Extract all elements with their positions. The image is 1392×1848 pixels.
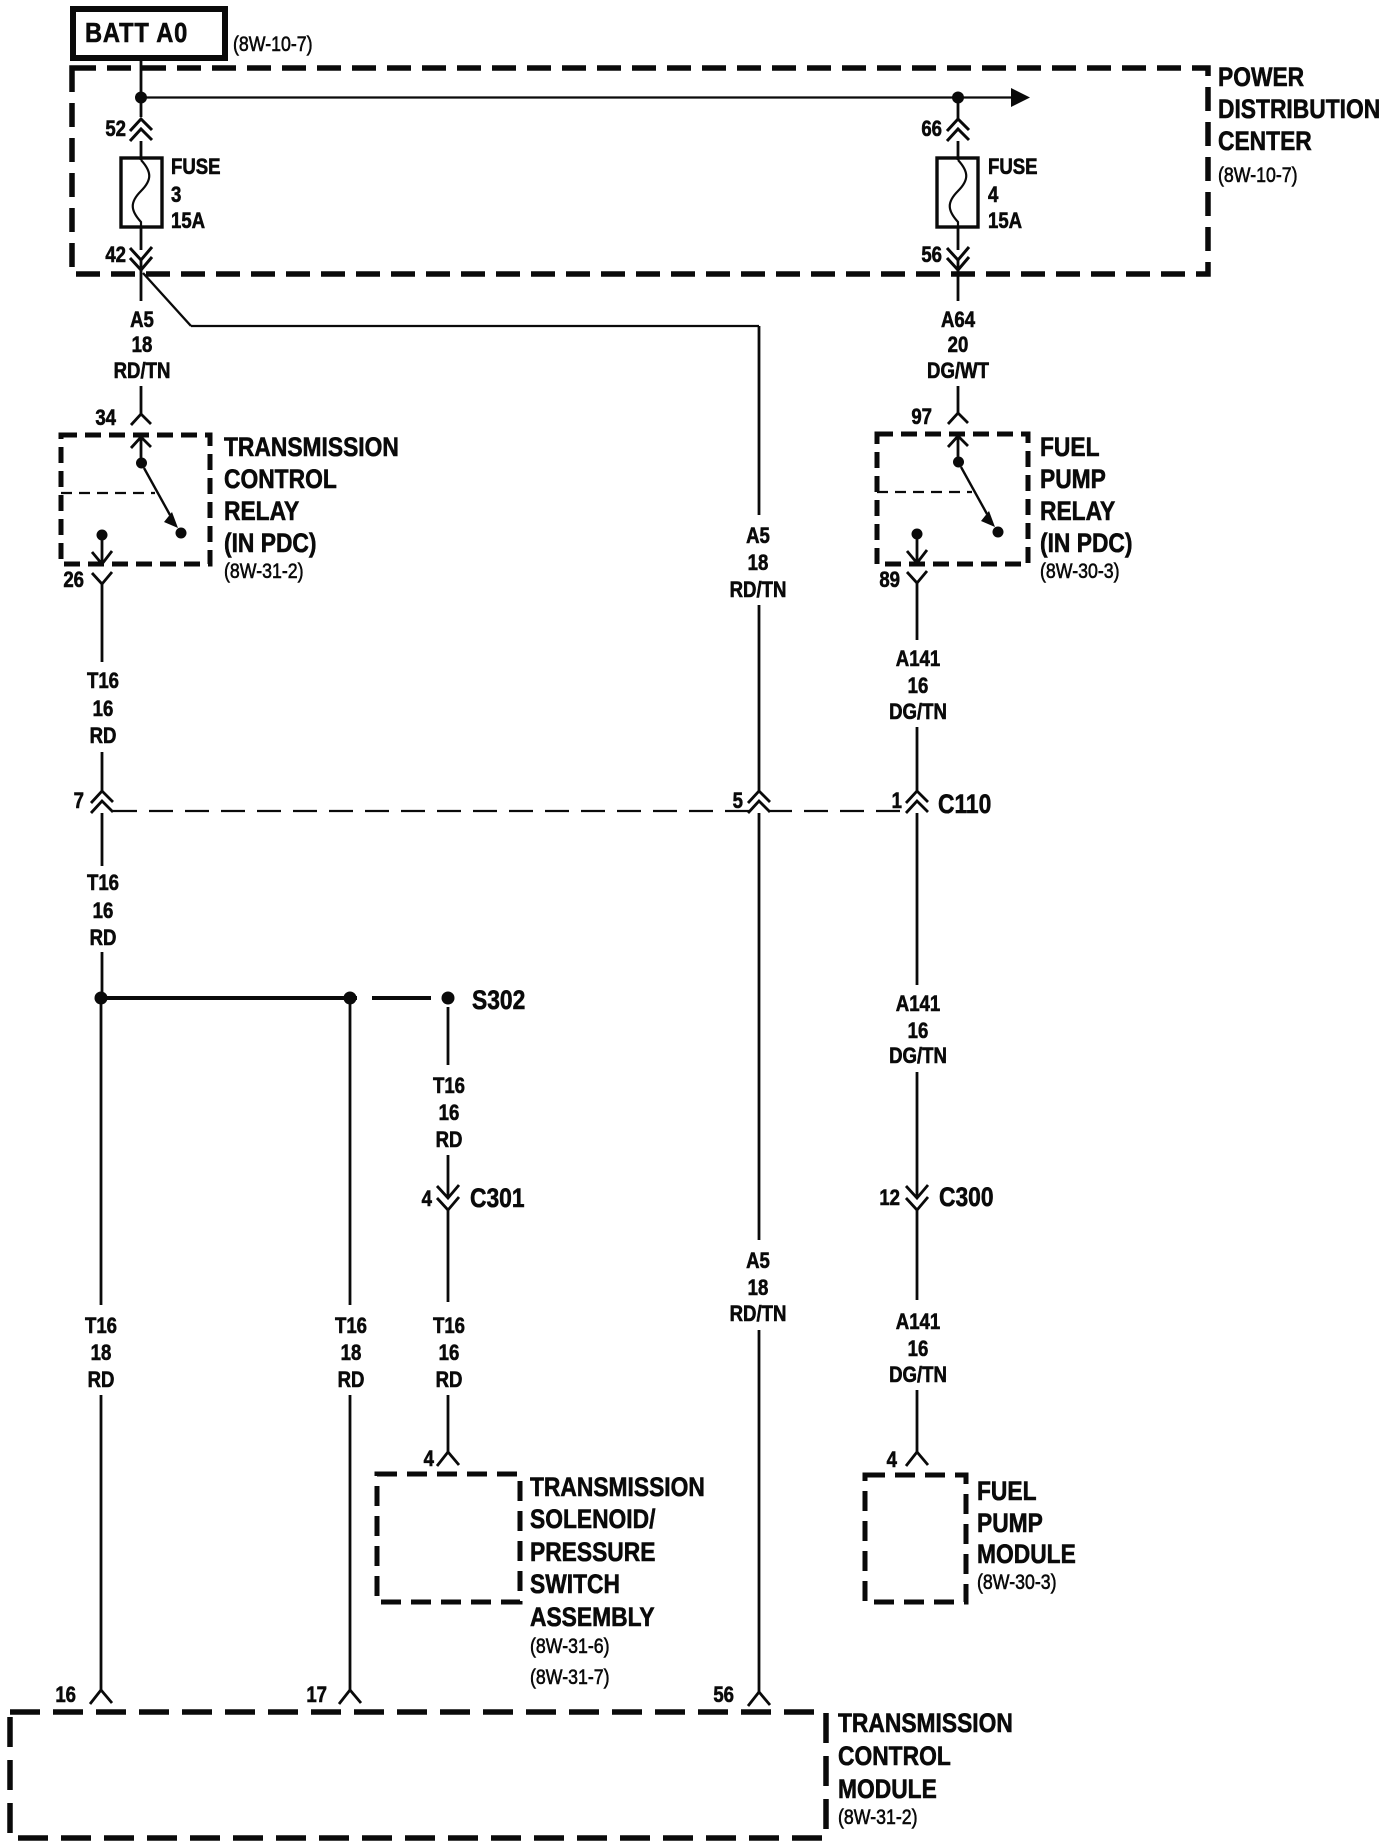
wire pin 66 to fuse 4 xyxy=(957,141,960,160)
connector chevron pin 1 (double up) xyxy=(906,791,928,813)
connector chevron pin 66 (double up) xyxy=(947,119,969,141)
wire label T16 16 RD (above C301) xyxy=(433,1075,465,1153)
svg-text:(8W-30-3): (8W-30-3) xyxy=(1040,560,1120,584)
relay K2 terminal arrow (pin 97 side) xyxy=(948,436,968,462)
svg-text:PUMP: PUMP xyxy=(977,1508,1043,1538)
connector chevron pin 7 (double up) xyxy=(91,791,113,813)
relay K1 common contact dot xyxy=(136,458,147,469)
connector chevron C300 (double down) xyxy=(906,1185,928,1210)
svg-text:FUEL: FUEL xyxy=(1040,432,1100,462)
svg-text:BATT A0: BATT A0 xyxy=(85,18,188,48)
svg-text:CONTROL: CONTROL xyxy=(838,1741,951,1771)
svg-text:DG/TN: DG/TN xyxy=(889,701,947,725)
wire resume to C110 pin 7 xyxy=(101,752,104,791)
svg-text:RD: RD xyxy=(436,1129,463,1153)
connector chevron pin 56 (double down) xyxy=(947,247,969,270)
connector half pin 26 (arms up) xyxy=(92,572,112,584)
connector half pin 56 (arms down) xyxy=(748,1692,770,1706)
svg-text:3: 3 xyxy=(171,184,181,208)
wire resume to relay pin 97 xyxy=(957,386,960,413)
svg-text:T16: T16 xyxy=(433,1315,465,1339)
transmission solenoid/pressure switch assembly dashed box xyxy=(377,1474,520,1602)
connector chevron pin 52 (double up) xyxy=(130,119,152,141)
fuse F3 element (wavy) xyxy=(133,160,150,227)
connector half pin 97 (arms down) xyxy=(948,413,968,424)
power distribution center dashed box xyxy=(72,68,1208,274)
svg-text:FUEL: FUEL xyxy=(977,1476,1037,1506)
svg-text:1: 1 xyxy=(892,790,902,814)
svg-text:POWER: POWER xyxy=(1218,62,1304,92)
wire pin52 to fuse 3 xyxy=(140,141,143,160)
wire resume to C110 pin 5 xyxy=(758,605,761,791)
svg-text:18: 18 xyxy=(91,1342,112,1366)
transmission control module dashed box xyxy=(10,1712,826,1838)
wire middle-left column resume to pin 17 xyxy=(349,1395,352,1690)
svg-text:SOLENOID/: SOLENOID/ xyxy=(530,1504,655,1534)
svg-text:52: 52 xyxy=(105,118,126,142)
wire label A5 18 RD/TN (middle column upper) xyxy=(730,525,787,603)
relay K1 switch blade (diagonal) xyxy=(144,468,170,515)
wire BATT A0 to bus xyxy=(140,58,143,117)
wire label A141 16 DG/TN (upper) xyxy=(889,648,947,725)
wire relay 89 down xyxy=(916,583,919,640)
svg-text:A141: A141 xyxy=(896,648,940,672)
fuse F3 body xyxy=(121,158,162,227)
svg-text:4: 4 xyxy=(424,1448,435,1472)
label FUSE 4 15A xyxy=(988,156,1038,234)
wire C300 down xyxy=(916,1210,919,1300)
wire middle-left column S302 to TCM pin 17 (upper run) xyxy=(349,998,352,1305)
label FUSE 3 15A xyxy=(171,156,221,234)
svg-text:S302: S302 xyxy=(472,985,525,1015)
splice S302 horizontal bus xyxy=(101,996,431,1000)
svg-text:(8W-10-7): (8W-10-7) xyxy=(233,33,313,57)
svg-text:CONTROL: CONTROL xyxy=(224,464,337,494)
relay K2 common contact dot xyxy=(953,457,964,468)
wire left column S302 to TCM pin 16 (upper run) xyxy=(100,998,103,1305)
svg-text:(IN PDC): (IN PDC) xyxy=(224,528,316,558)
svg-text:56: 56 xyxy=(921,244,942,268)
svg-text:TRANSMISSION: TRANSMISSION xyxy=(838,1708,1013,1738)
svg-text:A64: A64 xyxy=(941,309,976,333)
svg-text:56: 56 xyxy=(713,1684,734,1708)
svg-text:T16: T16 xyxy=(433,1075,465,1099)
svg-text:16: 16 xyxy=(908,675,929,699)
svg-text:RD/TN: RD/TN xyxy=(730,1303,787,1327)
svg-text:MODULE: MODULE xyxy=(838,1774,937,1804)
svg-text:A5: A5 xyxy=(746,525,770,549)
label FUEL PUMP RELAY (IN PDC) (8W-30-3) xyxy=(1040,432,1132,583)
wire label A5 18 RD/TN (middle column lower) xyxy=(730,1250,787,1327)
arrowhead at bus end xyxy=(1011,88,1030,107)
wire label A141 16 DG/TN (lower) xyxy=(889,1311,947,1388)
svg-text:PUMP: PUMP xyxy=(1040,464,1106,494)
relay K1 output contact dot xyxy=(97,530,108,541)
svg-text:A5: A5 xyxy=(130,309,154,333)
svg-text:16: 16 xyxy=(439,1102,460,1126)
svg-text:RELAY: RELAY xyxy=(224,496,300,526)
svg-text:A141: A141 xyxy=(896,1311,940,1335)
wire pin 42 through PDC edge xyxy=(140,260,143,301)
wire resume to fuel pump module pin 4 xyxy=(916,1390,919,1452)
relay K1 blade arrowhead xyxy=(164,512,178,528)
svg-text:(8W-31-7): (8W-31-7) xyxy=(530,1666,610,1690)
svg-text:20: 20 xyxy=(948,334,969,358)
fuse F4 element (wavy) xyxy=(950,160,967,227)
svg-text:SWITCH: SWITCH xyxy=(530,1569,620,1599)
svg-text:16: 16 xyxy=(93,698,114,722)
wire resume to solenoid assembly pin 4 xyxy=(447,1395,450,1452)
wire label T16 18 RD (left column bottom) xyxy=(85,1315,117,1393)
svg-text:CENTER: CENTER xyxy=(1218,126,1312,156)
relay K2 switch blade (diagonal) xyxy=(961,467,987,514)
wire diagonal branch from pin 42 xyxy=(143,273,191,326)
svg-text:4: 4 xyxy=(887,1449,898,1473)
svg-text:15A: 15A xyxy=(988,210,1022,234)
wire horizontal branch to middle column xyxy=(191,325,759,327)
label FUEL PUMP MODULE (8W-30-3) xyxy=(977,1476,1076,1594)
node BATT A0 (feed box) xyxy=(73,9,225,58)
connector chevron pin 42 (double down) xyxy=(130,247,152,270)
svg-text:(8W-31-2): (8W-31-2) xyxy=(224,560,304,584)
wire label A5 18 RD/TN (left column) xyxy=(114,309,171,384)
svg-text:DISTRIBUTION: DISTRIBUTION xyxy=(1218,94,1380,124)
svg-text:DG/TN: DG/TN xyxy=(889,1045,947,1069)
wire resume to TCM pin 56 xyxy=(758,1330,761,1692)
svg-text:(IN PDC): (IN PDC) xyxy=(1040,528,1132,558)
junction dot at fuse 3 feed xyxy=(135,92,147,104)
label POWER DISTRIBUTION CENTER xyxy=(1218,62,1380,187)
connector half pin 4 (arms down) xyxy=(906,1452,928,1466)
fuel pump relay dashed box xyxy=(877,434,1028,564)
splice S302 dot left xyxy=(95,992,108,1005)
wire pin 56 through PDC edge xyxy=(957,260,960,301)
wire A5 resume to relay pin 34 xyxy=(140,386,143,414)
svg-text:DG/WT: DG/WT xyxy=(927,360,989,384)
wire C301 down xyxy=(447,1210,450,1302)
wire resume to C301 pin 4 xyxy=(447,1155,450,1198)
wire label T16 16 RD (lower) xyxy=(87,872,119,951)
svg-text:RD/TN: RD/TN xyxy=(730,579,787,603)
svg-text:TRANSMISSION: TRANSMISSION xyxy=(530,1472,705,1502)
connector half pin 16 (arms down) xyxy=(90,1690,112,1704)
svg-text:(8W-31-2): (8W-31-2) xyxy=(838,1806,918,1830)
wire label T16 16 RD (below C301) xyxy=(433,1315,465,1393)
relay K1 linkage (dashed) xyxy=(61,492,155,494)
relay K1 fixed contact dot xyxy=(176,528,187,539)
relay K2 output contact dot xyxy=(912,529,923,540)
svg-text:15A: 15A xyxy=(171,210,205,234)
svg-text:PRESSURE: PRESSURE xyxy=(530,1537,655,1567)
label TRANSMISSION CONTROL MODULE (8W-31-2) xyxy=(838,1708,1013,1829)
svg-text:18: 18 xyxy=(748,1277,769,1301)
relay K1 terminal arrow (pin 34 side) xyxy=(131,437,151,463)
relay K2 fixed contact dot xyxy=(993,527,1004,538)
splice S302 dot right xyxy=(442,992,455,1005)
svg-text:12: 12 xyxy=(879,1187,900,1211)
fuse F4 body xyxy=(937,158,978,227)
svg-text:C110: C110 xyxy=(938,789,991,819)
wire left column resume to pin 16 xyxy=(100,1395,103,1690)
svg-text:5: 5 xyxy=(733,790,743,814)
connector half pin 4 (arms down) xyxy=(437,1452,459,1466)
wire relay 26 down xyxy=(101,584,104,662)
wire below C110 pin 1 xyxy=(916,813,919,985)
connector half pin 17 (arms down) xyxy=(339,1690,361,1704)
svg-text:4: 4 xyxy=(988,184,999,208)
svg-text:FUSE: FUSE xyxy=(988,156,1038,180)
svg-text:T16: T16 xyxy=(87,872,119,896)
svg-text:RD: RD xyxy=(90,927,117,951)
svg-text:RELAY: RELAY xyxy=(1040,496,1116,526)
transmission control relay dashed box xyxy=(61,435,210,564)
svg-text:MODULE: MODULE xyxy=(977,1539,1076,1569)
wire middle column from branch corner down xyxy=(758,326,761,515)
relay K2 output arrow (pin 89 side) xyxy=(907,539,927,563)
fuel pump module dashed box xyxy=(865,1475,966,1602)
wire bus (horizontal feed inside PDC) xyxy=(141,96,1011,98)
svg-text:A5: A5 xyxy=(746,1250,770,1274)
wire below C110 pin 5 xyxy=(758,813,761,1240)
svg-text:RD: RD xyxy=(88,1369,115,1393)
svg-text:RD: RD xyxy=(338,1369,365,1393)
svg-text:RD: RD xyxy=(436,1369,463,1393)
svg-text:18: 18 xyxy=(748,552,769,576)
svg-text:16: 16 xyxy=(439,1342,460,1366)
connector half pin 89 (arms up) xyxy=(907,571,927,583)
svg-text:(8W-30-3): (8W-30-3) xyxy=(977,1571,1057,1595)
svg-text:(8W-10-7): (8W-10-7) xyxy=(1218,164,1298,188)
svg-text:66: 66 xyxy=(921,118,942,142)
junction dot at fuse 4 feed xyxy=(952,92,964,104)
svg-text:A141: A141 xyxy=(896,993,940,1017)
svg-text:16: 16 xyxy=(908,1338,929,1362)
svg-text:RD: RD xyxy=(90,725,117,749)
svg-text:TRANSMISSION: TRANSMISSION xyxy=(224,432,399,462)
relay K2 blade arrowhead xyxy=(981,511,995,527)
wire resume to splice S302 xyxy=(101,952,104,998)
wire resume to C110 pin 1 xyxy=(916,727,919,791)
svg-text:T16: T16 xyxy=(87,670,119,694)
svg-text:T16: T16 xyxy=(335,1315,367,1339)
relay K2 linkage (dashed) xyxy=(877,491,972,493)
svg-text:16: 16 xyxy=(908,1020,929,1044)
connector half pin 34 (arms down) xyxy=(131,414,151,425)
svg-text:4: 4 xyxy=(422,1188,433,1212)
svg-text:DG/TN: DG/TN xyxy=(889,1364,947,1388)
svg-text:ASSEMBLY: ASSEMBLY xyxy=(530,1602,655,1632)
svg-text:18: 18 xyxy=(341,1342,362,1366)
wire fuse 4 to pin 56 xyxy=(957,227,960,250)
wire label A141 16 DG/TN (middle) xyxy=(889,993,947,1069)
svg-text:RD/TN: RD/TN xyxy=(114,360,171,384)
wire label T16 18 RD (middle-left column) xyxy=(335,1315,367,1393)
svg-text:(8W-31-6): (8W-31-6) xyxy=(530,1635,610,1659)
svg-text:T16: T16 xyxy=(85,1315,117,1339)
connector chevron C301 (double down) xyxy=(437,1185,459,1210)
svg-text:42: 42 xyxy=(105,244,126,268)
svg-text:97: 97 xyxy=(911,406,932,430)
label TRANSMISSION SOLENOID/PRESSURE SWITCH ASSEMBLY xyxy=(530,1472,705,1689)
wire S302 to C301 xyxy=(447,1007,450,1065)
connector C110 dashed line xyxy=(113,810,908,812)
svg-text:17: 17 xyxy=(306,1684,327,1708)
svg-text:7: 7 xyxy=(74,790,84,814)
svg-text:26: 26 xyxy=(63,569,84,593)
wire label T16 16 RD (upper) xyxy=(87,670,119,749)
connector chevron pin 5 (double up) xyxy=(748,791,770,813)
svg-text:34: 34 xyxy=(95,407,116,431)
label TRANSMISSION CONTROL RELAY (IN PDC) (8W-31-2) xyxy=(224,432,399,583)
svg-text:18: 18 xyxy=(132,334,153,358)
svg-text:16: 16 xyxy=(55,1684,76,1708)
wire label A64 20 DG/WT xyxy=(927,309,989,384)
wire bus dot to pin 66 xyxy=(957,103,960,119)
svg-text:FUSE: FUSE xyxy=(171,156,221,180)
wire resume to C300 pin 12 xyxy=(916,1072,919,1198)
svg-text:C301: C301 xyxy=(470,1183,525,1213)
wire below C110 pin 7 xyxy=(101,813,104,866)
relay K1 output arrow (pin 26 side) xyxy=(92,540,112,564)
svg-text:16: 16 xyxy=(93,900,114,924)
wire fuse 3 to pin 42 xyxy=(140,227,143,250)
svg-text:89: 89 xyxy=(879,569,900,593)
svg-text:C300: C300 xyxy=(939,1182,994,1212)
splice S302 dot middle xyxy=(344,992,357,1005)
